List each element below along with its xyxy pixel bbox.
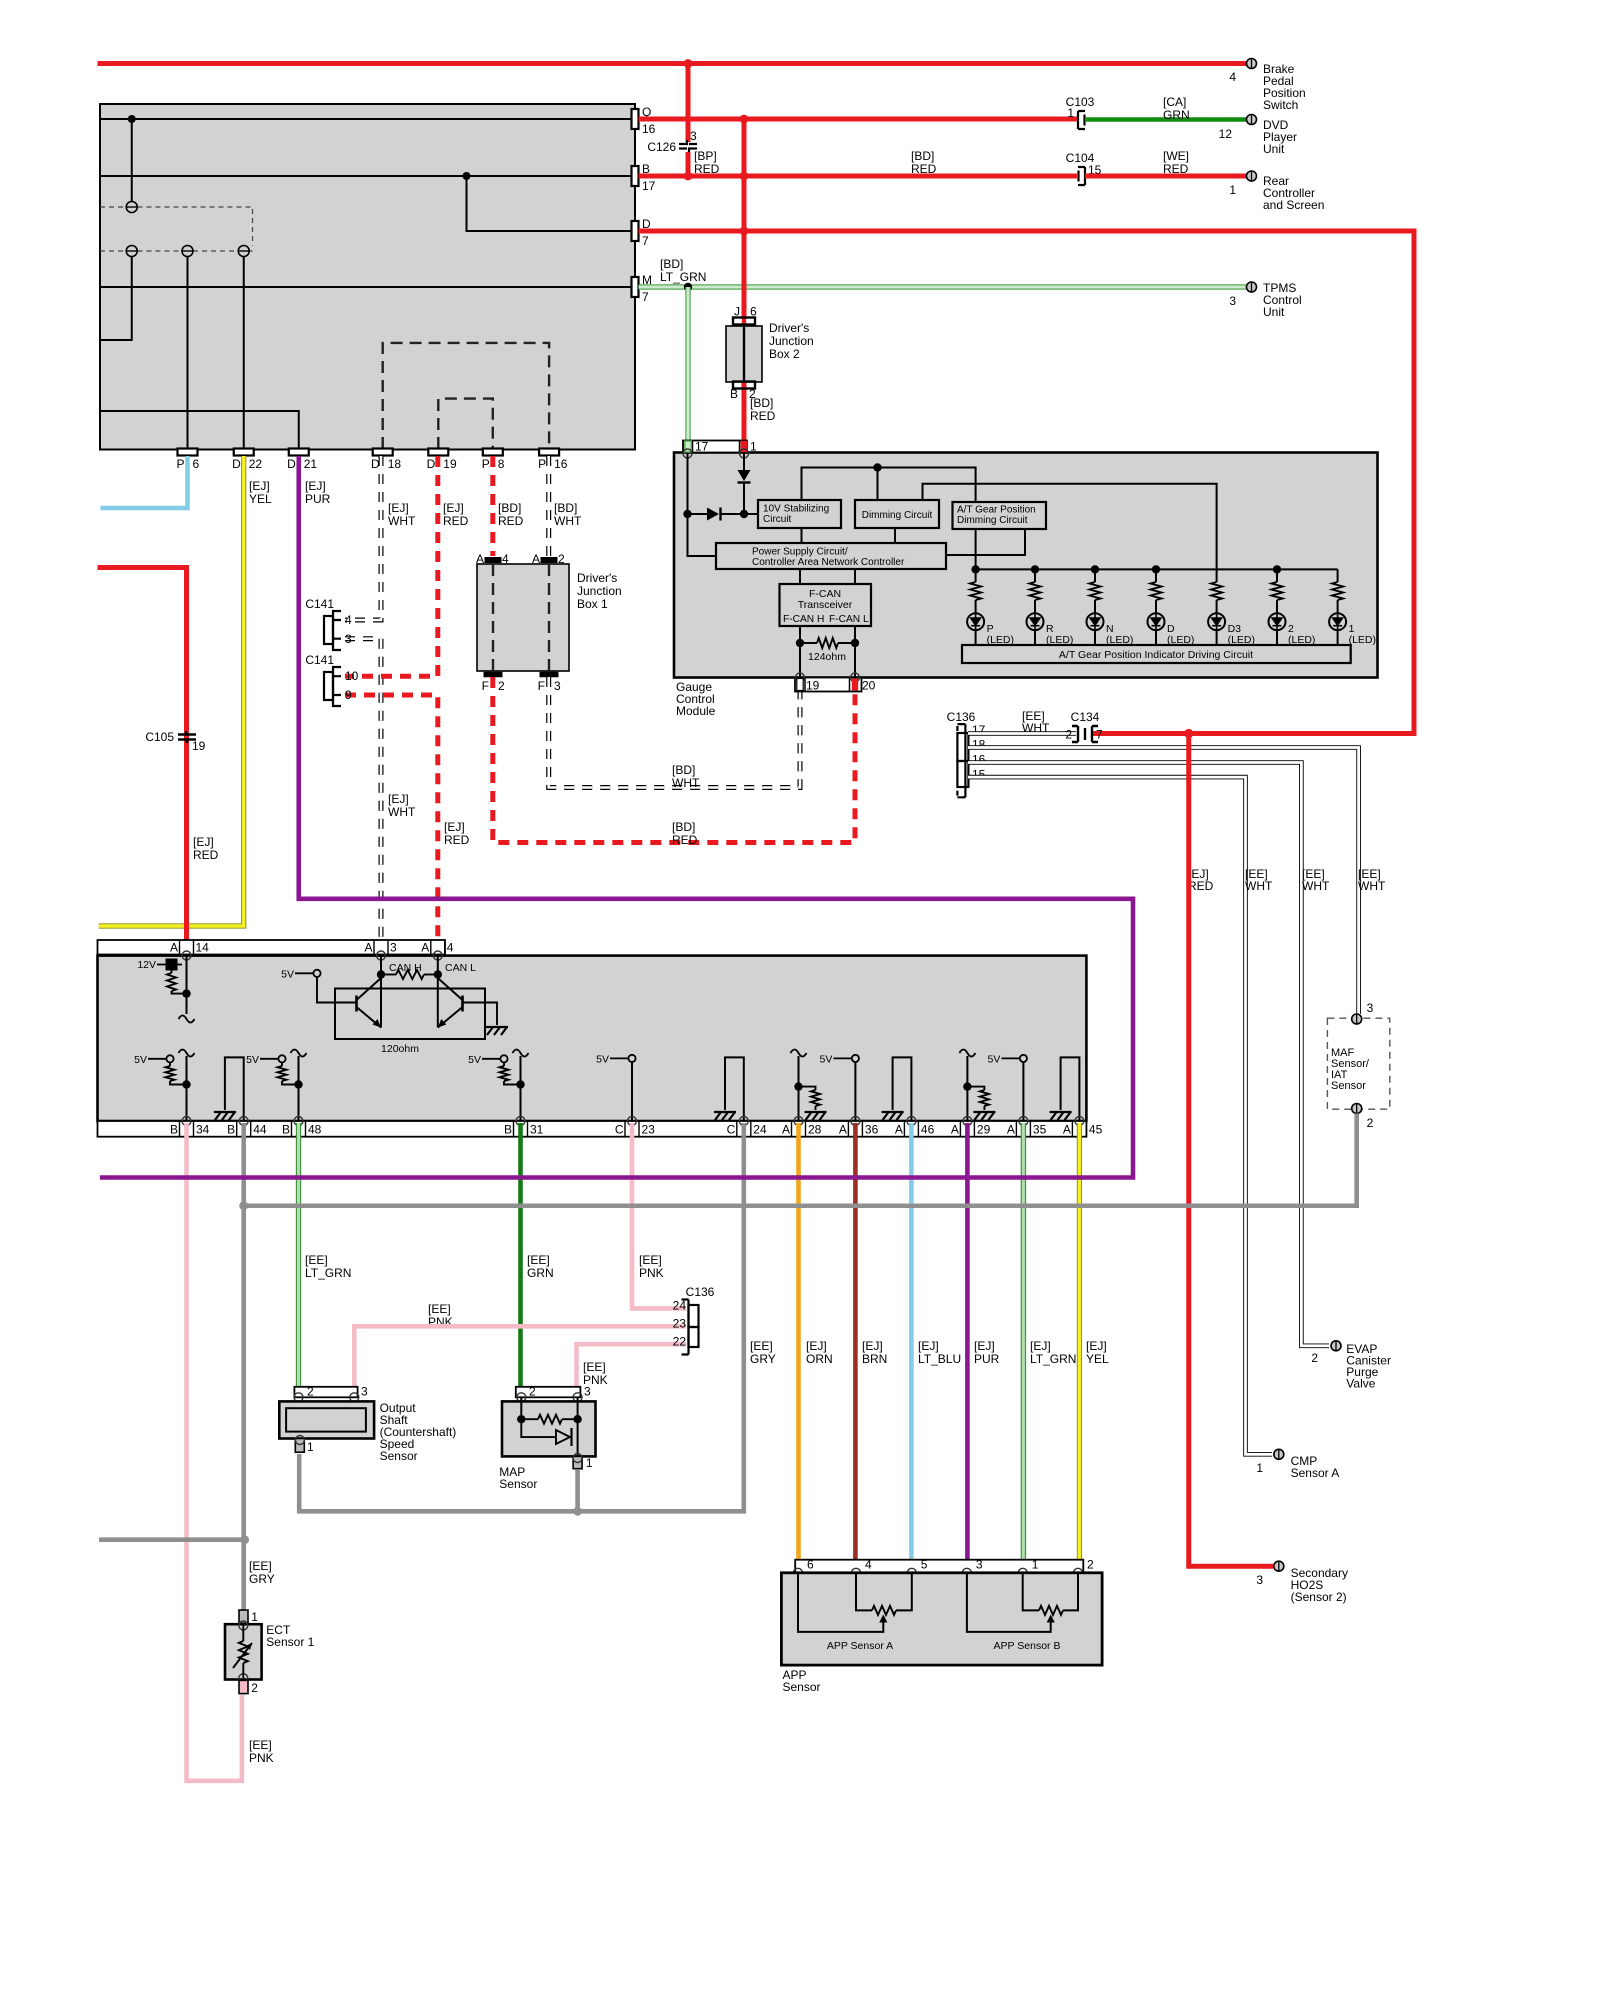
- MAP sensor connector bar: [516, 1387, 581, 1398]
- svg-text:B: B: [170, 1123, 178, 1137]
- junction MAP right: [573, 1415, 581, 1423]
- svg-text:[BD]: [BD]: [672, 820, 695, 834]
- svg-text:5V: 5V: [988, 1053, 1001, 1065]
- Gauge Control Module box: [674, 453, 1378, 678]
- svg-text:PUR: PUR: [974, 1352, 1000, 1366]
- pin C24 circle: [739, 1117, 748, 1126]
- svg-text:21: 21: [304, 457, 318, 471]
- svg-text:[EE]: [EE]: [428, 1302, 451, 1316]
- svg-text:A: A: [895, 1123, 903, 1137]
- pin D21 (top-left box bottom): [289, 449, 309, 456]
- ground circuit at pin A46: [893, 1057, 912, 1121]
- svg-text:3: 3: [976, 1558, 983, 1572]
- MAP internal wires: [520, 1397, 522, 1419]
- svg-text:A: A: [170, 941, 178, 955]
- svg-text:2: 2: [251, 1681, 258, 1695]
- svg-text:A: A: [1063, 1123, 1071, 1137]
- connector C136 (right): [957, 724, 968, 797]
- ECT Sensor 1 box: [225, 1624, 262, 1679]
- wire 5V into transceiver box: [317, 977, 340, 1003]
- junction top rail: [873, 463, 881, 471]
- svg-text:A/T Gear Position Indicator Dr: A/T Gear Position Indicator Driving Circ…: [1059, 649, 1253, 661]
- svg-text:D: D: [232, 457, 241, 471]
- svg-text:5V: 5V: [134, 1054, 147, 1066]
- wire [EE] GRY MAF pin2 to B44 node: [244, 1114, 1357, 1206]
- pin P6 (top-left box bottom): [178, 449, 198, 456]
- svg-text:WHT: WHT: [1245, 879, 1273, 893]
- ECM/PCM box: [98, 956, 1087, 1121]
- relay contact circle 4: [238, 246, 249, 257]
- svg-text:Box 2: Box 2: [769, 347, 800, 361]
- svg-text:F-CAN L: F-CAN L: [829, 614, 869, 625]
- MAP transducer symbol: [521, 1419, 556, 1437]
- LED bus rail: [976, 568, 1338, 570]
- GCM pin 1 stub: [741, 441, 747, 452]
- relay contact circle 3: [182, 246, 193, 257]
- junction 124ohm left: [796, 639, 804, 647]
- svg-text:[EJ]: [EJ]: [388, 501, 409, 515]
- svg-text:B: B: [227, 1123, 235, 1137]
- svg-text:B: B: [730, 387, 738, 401]
- svg-text:3: 3: [1256, 1573, 1263, 1587]
- wire A3 internal down: [380, 956, 382, 1028]
- wire pin17 down inside GCM: [688, 454, 717, 557]
- junction red bus / line B: [740, 172, 749, 181]
- svg-text:48: 48: [308, 1123, 322, 1137]
- wire 10V box to top rail: [802, 468, 976, 503]
- wire [EE] GRY from B44 down to ECT pin 1: [241, 1123, 246, 1612]
- svg-text:23: 23: [642, 1123, 656, 1137]
- connector C141 (pins 4/3): [324, 611, 341, 650]
- Output Shaft Speed Sensor connector bar: [294, 1387, 357, 1398]
- squiggle+resistor to ground at pin A28: [791, 1050, 807, 1057]
- svg-text:Sensor: Sensor: [783, 1680, 821, 1694]
- resistor above LED P: [975, 569, 977, 582]
- pin A36 circle: [851, 1117, 860, 1126]
- svg-text:C136: C136: [947, 710, 976, 724]
- svg-text:5V: 5V: [468, 1054, 481, 1066]
- svg-text:4: 4: [865, 1558, 872, 1572]
- wire [BD] RED line Q to C103: [639, 117, 1078, 122]
- connector F3 (junction box 1 bottom pin): [540, 672, 558, 677]
- svg-text:Unit: Unit: [1263, 305, 1285, 319]
- svg-text:6: 6: [750, 305, 757, 319]
- wire [EE] WHT C136 pin18 to MAF pin3: [968, 748, 1359, 1015]
- svg-text:J: J: [734, 305, 740, 319]
- svg-text:Power Supply Circuit/: Power Supply Circuit/: [752, 547, 848, 558]
- svg-text:LT_BLU: LT_BLU: [918, 1352, 961, 1366]
- svg-text:45: 45: [1089, 1123, 1103, 1137]
- wire from circle 2 down-left to box edge: [100, 257, 132, 341]
- junction GRY at MAF branch: [239, 1201, 248, 1210]
- svg-text:Box 1: Box 1: [577, 597, 608, 611]
- wire AT dimming box to power supply box: [946, 529, 1025, 555]
- wire [EE] PNK from C136 pin 22 to MAP pin 3: [577, 1344, 687, 1392]
- svg-text:C: C: [615, 1123, 624, 1137]
- connector J6 (Driver Junction Box 2 top pin): [733, 318, 755, 325]
- svg-text:[EE]: [EE]: [527, 1253, 550, 1267]
- GCM pin 19 circle: [796, 673, 805, 682]
- squiggle+resistor to ground at pin A29: [959, 1050, 975, 1057]
- wire 10V box to power supply box: [801, 528, 803, 543]
- pin B31 circle: [516, 1117, 525, 1126]
- dashed wire to pins D18/P16: [383, 343, 549, 449]
- wire [EE] GRY from C24 down to speed/MAP sensors: [299, 1123, 744, 1511]
- ground circuit at pin A45: [1061, 1057, 1080, 1121]
- APP pin 5 circle: [907, 1568, 916, 1577]
- ECT variable resistor: [242, 1626, 244, 1642]
- svg-text:Dimming Circuit: Dimming Circuit: [957, 515, 1028, 526]
- svg-text:A/T Gear Position: A/T Gear Position: [957, 505, 1036, 516]
- 10V Stabilizing Circuit box: [758, 500, 841, 528]
- wire [EJ] YEL from pin D22 down and left: [99, 456, 244, 926]
- wire dimming box to power supply box: [894, 528, 896, 543]
- LED 2: [1269, 613, 1286, 630]
- svg-text:(LED): (LED): [1349, 634, 1376, 646]
- wire vertical RED bus x=744: [742, 119, 747, 318]
- MAP pin 3 circle: [573, 1393, 582, 1402]
- svg-text:[EJ]: [EJ]: [918, 1339, 939, 1353]
- Output sensor pin 1: [295, 1439, 304, 1453]
- svg-text:Driver's: Driver's: [577, 571, 617, 585]
- GCM pin 1 circle: [740, 449, 749, 458]
- junction node on line B: [463, 172, 471, 180]
- svg-text:1: 1: [750, 440, 757, 454]
- junction LT_GRN branch: [684, 283, 692, 291]
- svg-text:C136: C136: [686, 1285, 715, 1299]
- svg-text:GRY: GRY: [750, 1352, 776, 1366]
- resistor 124ohm: [800, 642, 817, 644]
- svg-text:Sensor 1: Sensor 1: [266, 1635, 314, 1649]
- connector C104: [1078, 167, 1085, 185]
- APP sensor A resistor: [856, 1573, 872, 1611]
- ground (CAN transceiver): [486, 1027, 508, 1035]
- wire [BD] RED line D to right elbow down to C134 junction: [639, 231, 1415, 734]
- svg-text:RED: RED: [672, 833, 698, 847]
- svg-text:1: 1: [307, 1440, 314, 1454]
- svg-text:A: A: [782, 1123, 790, 1137]
- svg-text:APP Sensor B: APP Sensor B: [994, 1640, 1061, 1652]
- svg-text:10: 10: [345, 669, 359, 683]
- resistor between CAN H and CAN L: [396, 970, 424, 979]
- svg-text:[BD]: [BD]: [554, 501, 577, 515]
- svg-text:Driver's: Driver's: [769, 321, 809, 335]
- resistor above LED 2: [1276, 569, 1278, 582]
- svg-text:C: C: [727, 1123, 736, 1137]
- svg-text:18: 18: [388, 457, 402, 471]
- svg-text:12V: 12V: [137, 959, 156, 971]
- wire F-CAN L down to pin 20: [854, 626, 856, 677]
- connector C103: [1078, 111, 1085, 129]
- svg-text:[EJ]: [EJ]: [974, 1339, 995, 1353]
- pin A45 circle: [1075, 1117, 1084, 1126]
- svg-text:Module: Module: [676, 704, 716, 718]
- svg-text:D: D: [287, 457, 296, 471]
- svg-text:3: 3: [584, 1385, 591, 1399]
- wire from box edge to pin D21: [100, 411, 299, 449]
- pin A3 circle: [377, 951, 386, 960]
- svg-text:24: 24: [673, 1299, 687, 1313]
- svg-text:16: 16: [554, 457, 568, 471]
- svg-text:LT_GRN: LT_GRN: [1030, 1352, 1076, 1366]
- svg-text:19: 19: [192, 739, 206, 753]
- wire bus line Q (in top-left box): [100, 118, 632, 120]
- svg-text:7: 7: [1096, 728, 1103, 742]
- svg-text:17: 17: [642, 179, 656, 193]
- junction CAN resistor left: [377, 970, 385, 978]
- svg-text:PNK: PNK: [249, 1751, 274, 1765]
- svg-text:[BD]: [BD]: [498, 501, 521, 515]
- svg-text:19: 19: [443, 457, 457, 471]
- svg-text:31: 31: [530, 1123, 544, 1137]
- wire [EE] GRN from B31 to MAP sensor pin 2: [518, 1123, 523, 1392]
- GCM pin 17 stub: [685, 441, 691, 452]
- Output sensor pin 3 circle: [350, 1393, 359, 1402]
- pin A4 circle: [433, 951, 442, 960]
- svg-text:[EE]: [EE]: [249, 1738, 272, 1752]
- APP sensor connector bar: [795, 1560, 1083, 1573]
- svg-text:A: A: [364, 941, 372, 955]
- svg-text:A: A: [421, 941, 429, 955]
- svg-text:5V: 5V: [596, 1053, 609, 1065]
- wire [BD] RED dashed from F2 to GCM pin 20: [493, 677, 855, 843]
- svg-text:3: 3: [690, 129, 697, 143]
- svg-text:4: 4: [447, 941, 454, 955]
- wire [BD] WHT dashed from pin P16 to junction box 1 pin A2: [546, 456, 551, 556]
- svg-text:Dimming Circuit: Dimming Circuit: [862, 510, 933, 521]
- MAP pin 1: [573, 1456, 582, 1468]
- svg-text:36: 36: [865, 1123, 879, 1137]
- wire RED J6 through junction box 2 to GCM pin 1: [742, 316, 746, 330]
- resistor above LED 1: [1337, 569, 1339, 582]
- svg-text:WHT: WHT: [1358, 879, 1386, 893]
- svg-text:28: 28: [808, 1123, 822, 1137]
- terminal DVD Player Unit: [1247, 115, 1257, 125]
- wire [BD] RED dashed from pin P8 to junction box 1 pin A4: [490, 456, 495, 556]
- svg-text:C134: C134: [1071, 710, 1100, 724]
- svg-text:19: 19: [806, 679, 820, 693]
- wire GRY MAP pin1: [575, 1470, 580, 1511]
- pin B44 circle: [239, 1117, 248, 1126]
- svg-text:WHT: WHT: [388, 514, 416, 528]
- svg-text:3: 3: [554, 679, 561, 693]
- svg-text:A: A: [839, 1123, 847, 1137]
- wire bus line M (in top-left box): [100, 286, 632, 288]
- svg-text:124ohm: 124ohm: [808, 651, 846, 663]
- svg-text:Sensor: Sensor: [1331, 1080, 1366, 1092]
- ground circuit at pin C24: [725, 1057, 744, 1121]
- svg-text:1: 1: [1256, 1461, 1263, 1475]
- svg-text:3: 3: [1367, 1001, 1374, 1015]
- svg-text:[EE]: [EE]: [305, 1253, 328, 1267]
- svg-text:C141: C141: [305, 653, 334, 667]
- diode D1 inside GCM: [743, 454, 745, 471]
- wire AT dimming box down to LED bus: [975, 529, 977, 569]
- wire from node down to relay circle: [131, 119, 133, 202]
- svg-text:20: 20: [862, 679, 876, 693]
- APP pin 6 circle: [794, 1568, 803, 1577]
- wire [EJ] LT_GRN from A35 to APP pin 1: [1021, 1123, 1026, 1570]
- svg-text:8: 8: [498, 457, 505, 471]
- pin P16 (top-left box bottom): [539, 449, 559, 456]
- svg-text:LT_GRN: LT_GRN: [660, 270, 706, 284]
- ECT sensor pin 1: [239, 1610, 248, 1623]
- wire [BD] RED line B to C104: [639, 174, 1078, 179]
- svg-text:4: 4: [1229, 70, 1236, 84]
- svg-text:3: 3: [1229, 294, 1236, 308]
- wire RED C126 to line B: [686, 152, 691, 176]
- wire from circle 3 down to pin P6: [187, 257, 189, 450]
- svg-text:BRN: BRN: [862, 1352, 887, 1366]
- Dimming Circuit box: [855, 500, 939, 528]
- terminal Secondary HO2S: [1274, 1561, 1284, 1571]
- wire power box to F-CAN (left): [799, 569, 801, 584]
- junction red bus / line Q: [740, 115, 749, 124]
- GCM bottom connector bar: [795, 678, 862, 692]
- wire LT_GRN down to Gauge Control Module pin 17: [685, 287, 690, 446]
- svg-text:B: B: [282, 1123, 290, 1137]
- connector C141 (pins 10/9): [324, 667, 341, 706]
- connector A2 (junction box 1 top pin): [541, 558, 557, 563]
- svg-text:3: 3: [390, 941, 397, 955]
- pin D18 (top-left box bottom): [373, 449, 393, 456]
- svg-text:ORN: ORN: [806, 1352, 833, 1366]
- svg-text:1: 1: [1032, 1558, 1039, 1572]
- svg-text:1: 1: [1067, 106, 1074, 120]
- svg-text:RED: RED: [193, 848, 219, 862]
- wire [EE] PNK from C23 to C136 pin 24: [632, 1123, 686, 1308]
- wire [EJ] WHT dashed from pin D18 to C141 pin 4: [345, 456, 381, 620]
- MAF pin 2: [1352, 1104, 1362, 1114]
- svg-text:LT_GRN: LT_GRN: [305, 1266, 351, 1280]
- dashed wire to pins D19/P8: [438, 399, 493, 449]
- svg-text:GRY: GRY: [249, 1572, 275, 1586]
- junction A14 pullup: [182, 989, 190, 997]
- svg-text:(Sensor 2): (Sensor 2): [1291, 1590, 1347, 1604]
- svg-text:YEL: YEL: [1086, 1352, 1109, 1366]
- svg-text:PUR: PUR: [305, 492, 331, 506]
- pin Q (top-left box): [632, 109, 639, 129]
- junction LED bus at R: [1031, 565, 1039, 573]
- svg-text:6: 6: [193, 457, 200, 471]
- svg-text:RED: RED: [444, 833, 470, 847]
- pin A28 circle: [794, 1117, 803, 1126]
- APP Sensor box: [781, 1573, 1102, 1665]
- svg-text:P: P: [482, 457, 490, 471]
- svg-text:A: A: [1007, 1123, 1015, 1137]
- svg-text:[EJ]: [EJ]: [249, 479, 270, 493]
- APP sensor B resistor: [1023, 1573, 1039, 1611]
- svg-text:7: 7: [642, 234, 649, 248]
- svg-text:22: 22: [673, 1335, 687, 1349]
- svg-text:F: F: [482, 679, 489, 693]
- resistor above LED R: [1034, 569, 1036, 582]
- svg-text:2: 2: [1311, 1351, 1318, 1365]
- svg-text:[WE]: [WE]: [1163, 149, 1189, 163]
- wire [EE] PNK from B34 down to ECT pin 2: [187, 1123, 242, 1781]
- svg-text:[EJ]: [EJ]: [862, 1339, 883, 1353]
- LED N: [1087, 613, 1104, 630]
- pin B (top-left box): [632, 166, 639, 186]
- wire [WE] RED C104 to Rear Controller: [1085, 174, 1247, 179]
- MAP pin 2 circle: [517, 1393, 526, 1402]
- junction inside GCM (right): [740, 510, 748, 518]
- svg-text:2: 2: [529, 1385, 536, 1399]
- APP pin 2 circle: [1074, 1568, 1083, 1577]
- svg-text:B: B: [504, 1123, 512, 1137]
- Output sensor pin 2 circle: [294, 1393, 303, 1402]
- svg-text:9: 9: [345, 688, 352, 702]
- svg-text:5V: 5V: [246, 1054, 259, 1066]
- svg-text:RED: RED: [498, 514, 524, 528]
- svg-text:Switch: Switch: [1263, 98, 1298, 112]
- svg-text:10V Stabilizing: 10V Stabilizing: [763, 504, 829, 515]
- diode D2 horizontal inside GCM: [688, 513, 708, 515]
- svg-text:RED: RED: [750, 409, 776, 423]
- wire [BD] WHT dashed from F3 to GCM pin 19: [549, 677, 800, 788]
- A/T Gear Position Dimming Circuit box: [953, 502, 1047, 529]
- wire [EJ] ORN from A28 to APP pin 6: [796, 1123, 801, 1570]
- wire [EE] GRY left branch: [99, 1537, 245, 1542]
- svg-text:D: D: [427, 457, 436, 471]
- junction [EJ] RED branch: [1184, 729, 1193, 738]
- GCM pin 19 stub white: [797, 679, 803, 691]
- squiggle A14 end: [179, 1016, 195, 1023]
- terminal Rear Controller and Screen: [1247, 171, 1257, 181]
- svg-text:[BD]: [BD]: [750, 396, 773, 410]
- terminal CMP Sensor A: [1274, 1449, 1284, 1459]
- wire [EE] PNK from Output pin 3 to C136 pin 23: [354, 1326, 686, 1392]
- svg-text:APP Sensor A: APP Sensor A: [827, 1640, 893, 1652]
- connector A4 (junction box 1 top pin): [485, 558, 501, 563]
- junction MAP left: [517, 1415, 525, 1423]
- GCM pin 17 circle: [683, 449, 692, 458]
- svg-text:WHT: WHT: [672, 776, 700, 790]
- connector C126: [679, 140, 697, 153]
- svg-text:YEL: YEL: [249, 492, 272, 506]
- svg-text:[BP]: [BP]: [694, 149, 717, 163]
- junction node on line Q: [128, 115, 136, 123]
- relay contact circle 2: [126, 246, 137, 257]
- F-CAN Transceiver box: [780, 584, 872, 626]
- wire [EE] LT_GRN from B48 to Output Speed Sensor pin 2: [296, 1123, 301, 1392]
- svg-text:F: F: [538, 679, 545, 693]
- resistor at A14 pullup: [171, 970, 173, 973]
- pin C23 circle: [628, 1117, 637, 1126]
- GCM top connector bar: [683, 441, 747, 453]
- pin P8 (top-left box bottom): [483, 449, 503, 456]
- wire C134 to red bus (part of D-line elbow): [1098, 731, 1189, 736]
- junction CAN resistor right: [434, 970, 442, 978]
- svg-text:[BD]: [BD]: [660, 257, 683, 271]
- svg-text:2: 2: [498, 679, 505, 693]
- svg-text:44: 44: [253, 1123, 267, 1137]
- svg-text:[EE]: [EE]: [750, 1339, 773, 1353]
- svg-text:3: 3: [361, 1385, 368, 1399]
- svg-text:Controller Area Network Contro: Controller Area Network Controller: [752, 557, 905, 568]
- svg-text:1: 1: [586, 1456, 593, 1470]
- svg-text:Junction: Junction: [769, 334, 814, 348]
- svg-text:RED: RED: [443, 514, 469, 528]
- resistor above LED N: [1094, 569, 1096, 582]
- APP pin 3 circle: [962, 1568, 971, 1577]
- svg-text:[EJ]: [EJ]: [443, 501, 464, 515]
- svg-text:2: 2: [1087, 1558, 1094, 1572]
- svg-text:46: 46: [921, 1123, 935, 1137]
- wire [EJ] RED from left margin via C105 to ECM pin A14: [98, 568, 187, 955]
- wire rail to dimming circuit: [877, 468, 879, 501]
- wire dimming box to AT-D3 rail: [923, 484, 1217, 570]
